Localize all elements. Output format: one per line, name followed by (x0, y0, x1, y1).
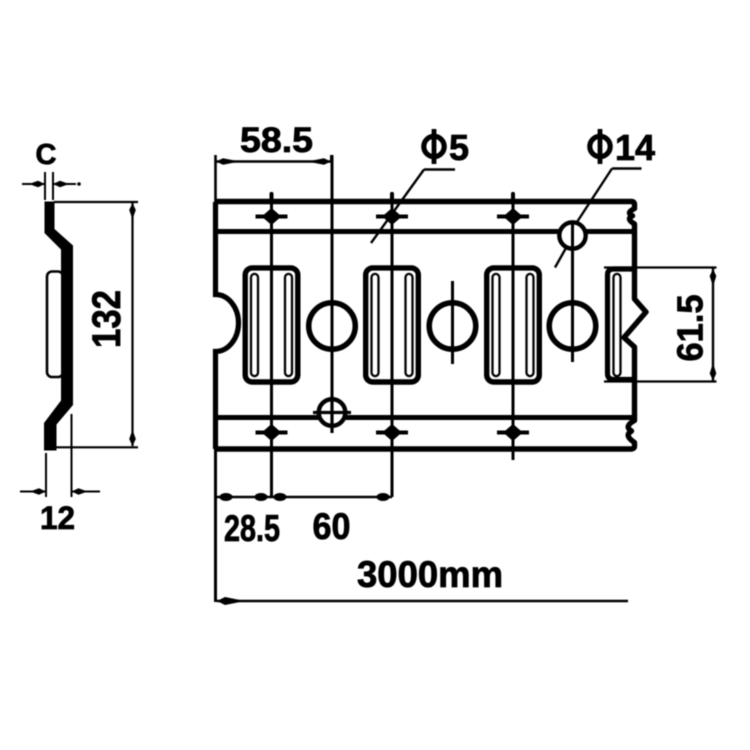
svg-text:14: 14 (615, 127, 655, 168)
svg-text:5: 5 (449, 127, 469, 168)
svg-text:C: C (36, 139, 57, 171)
svg-text:3000mm: 3000mm (357, 554, 503, 595)
svg-text:12: 12 (40, 500, 75, 536)
svg-text:60: 60 (313, 506, 351, 547)
svg-text:58.5: 58.5 (240, 121, 313, 160)
svg-text:132: 132 (85, 290, 129, 348)
svg-text:28.5: 28.5 (224, 508, 280, 549)
svg-text:61.5: 61.5 (670, 295, 711, 362)
